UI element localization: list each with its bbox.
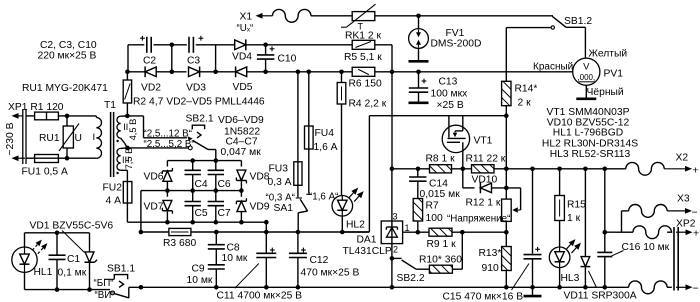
- svg-text:HL1 L-796BGD: HL1 L-796BGD: [553, 127, 623, 138]
- capacitor C9 10mk: [187, 249, 225, 287]
- connector XP2 plug: [622, 219, 700, 291]
- svg-text:470 мк×25 В: 470 мк×25 В: [301, 268, 360, 279]
- svg-text:Желтый: Желтый: [589, 49, 628, 60]
- svg-text:“2,5...12 В“: “2,5...12 В“: [144, 129, 192, 140]
- wire ground bus: [129, 285, 629, 290]
- svg-text:,000,: ,000,: [577, 73, 595, 82]
- capacitor C5: [185, 191, 208, 223]
- svg-text:SB2.1: SB2.1: [186, 114, 214, 125]
- node R4 top: [339, 70, 344, 75]
- resistor R1 120: [26, 112, 67, 120]
- switch SB2.1: [186, 114, 216, 161]
- capacitor C8 10mk: [208, 232, 248, 264]
- resistor R6 150: [349, 67, 574, 89]
- diode VD6: [144, 161, 173, 191]
- svg-text:4 А: 4 А: [106, 196, 122, 207]
- svg-text:100 мкх: 100 мкх: [431, 89, 469, 100]
- resistor R11 22k: [466, 154, 506, 173]
- svg-text:R12 1 к: R12 1 к: [466, 198, 501, 209]
- svg-text:FV1: FV1: [446, 28, 465, 39]
- svg-text:“ВИ“: “ВИ“: [95, 290, 115, 301]
- capacitor C1 0,1mk: [49, 233, 87, 290]
- diode VD2: [141, 66, 187, 93]
- node A: [170, 43, 175, 48]
- svg-text:“Напряжение“: “Напряжение“: [447, 214, 510, 225]
- wire HL1 top: [25, 231, 90, 248]
- svg-text:2: 2: [393, 244, 398, 254]
- led HL1: [12, 240, 53, 279]
- svg-text:VD3: VD3: [186, 83, 206, 94]
- capacitor C16 10mk: [597, 169, 669, 287]
- svg-text:3: 3: [393, 212, 398, 222]
- resistor R9 1k: [427, 228, 509, 250]
- svg-text:Чёрный: Чёрный: [587, 87, 624, 98]
- svg-text:R5 5,1 к: R5 5,1 к: [344, 52, 382, 63]
- svg-text:SB1.1: SB1.1: [107, 264, 135, 275]
- svg-text:910: 910: [482, 263, 499, 274]
- svg-text:SA1: SA1: [274, 203, 294, 214]
- svg-text:C12: C12: [310, 255, 329, 266]
- transistor VT1 mosfet: [442, 116, 492, 169]
- svg-text:C2, C3, C10: C2, C3, C10: [40, 40, 97, 51]
- resistor R3 680: [139, 228, 370, 248]
- capacitor C2: [140, 36, 187, 67]
- capacitor C13 100mk: [409, 72, 468, 111]
- node HL2 bottom: [340, 230, 345, 235]
- svg-text:R11 22 к: R11 22 к: [466, 154, 506, 165]
- svg-text:HL3 RL52-SR113: HL3 RL52-SR113: [550, 149, 631, 160]
- svg-text:FU3: FU3: [269, 164, 289, 175]
- text parts list: [542, 107, 638, 160]
- switch SB1.2: [506, 16, 592, 81]
- svg-text:HL2 RL30N-DR314S: HL2 RL30N-DR314S: [542, 138, 638, 149]
- ground under FV1: [418, 48, 420, 60]
- svg-text:PV1: PV1: [604, 69, 624, 80]
- wire tap 2,5-5,2V: [125, 139, 195, 150]
- svg-text:C1: C1: [67, 254, 80, 265]
- ic DA1 TL431CLP: [343, 169, 410, 257]
- svg-text:C6: C6: [218, 179, 231, 190]
- fuse FU3 0,3A: [268, 72, 303, 188]
- svg-text:R3 680: R3 680: [163, 238, 196, 249]
- ground under PV1: [585, 85, 587, 98]
- vertical C2-VD2: [171, 45, 173, 72]
- svg-text:4,5 В: 4,5 В: [128, 119, 138, 141]
- capacitor C7: [208, 191, 231, 223]
- diode VD4: [232, 39, 266, 62]
- svg-text:VD2: VD2: [141, 83, 161, 94]
- svg-text:C7: C7: [218, 208, 231, 219]
- svg-text:VD6–VD9: VD6–VD9: [218, 115, 264, 126]
- resistor R10* 360: [419, 232, 462, 273]
- wire bridge top rail: [167, 158, 241, 163]
- svg-text:C15 470 мк×16 В: C15 470 мк×16 В: [443, 292, 524, 302]
- svg-text:C16 10 мк: C16 10 мк: [622, 242, 670, 253]
- resistor R7 100: [413, 181, 510, 232]
- capacitor C12 470mk: [289, 232, 360, 287]
- arrester FV1 DMS-200D: [409, 14, 482, 50]
- svg-text:SB1.2: SB1.2: [564, 16, 592, 27]
- svg-text:VD11 SRP300A: VD11 SRP300A: [564, 291, 637, 302]
- svg-text:R2 4,7 VD2–VD5 PMLL4446: R2 4,7 VD2–VD5 PMLL4446: [133, 97, 265, 108]
- svg-text:DA1: DA1: [357, 234, 377, 245]
- wire bottom rail y72: [128, 71, 145, 73]
- terminal minus output: [629, 281, 699, 295]
- svg-text:T1: T1: [104, 100, 116, 111]
- svg-text:1,6 А: 1,6 А: [314, 142, 338, 153]
- resistor R14* 2k: [502, 81, 538, 169]
- svg-text:0,3 А: 0,3 А: [268, 177, 292, 188]
- zener VD1 BZV55C-5V6: [30, 221, 114, 290]
- svg-text:Красный: Красный: [533, 62, 573, 73]
- svg-text:C11 4700 мк×25 В: C11 4700 мк×25 В: [217, 291, 303, 302]
- svg-text:RU1 MYG-20K471: RU1 MYG-20K471: [22, 83, 108, 94]
- resistor R4 2,2k: [337, 72, 386, 196]
- svg-text:R7: R7: [426, 201, 439, 212]
- wire bridge mid rail: [141, 188, 244, 232]
- svg-text:1 к: 1 к: [567, 213, 581, 224]
- svg-text:VD7: VD7: [144, 202, 164, 213]
- wire primary bottom: [67, 157, 96, 159]
- svg-text:R15: R15: [567, 200, 586, 211]
- resistor R2 4,7: [123, 70, 265, 119]
- svg-text:C4: C4: [195, 179, 208, 190]
- node R6-FU3: [296, 70, 301, 75]
- wire squiggle X1: [273, 9, 353, 22]
- svg-text:+: +: [693, 165, 699, 177]
- svg-text:VD9: VD9: [250, 202, 270, 213]
- svg-text:R14*: R14*: [515, 84, 538, 95]
- diode VD3: [186, 66, 235, 93]
- svg-text:−: −: [692, 207, 698, 219]
- svg-text:C9: C9: [192, 264, 205, 275]
- svg-text:VD4: VD4: [232, 51, 252, 62]
- thermistor RK1 2k: [341, 4, 553, 41]
- diode VD5: [233, 66, 353, 93]
- svg-text:SB2.2: SB2.2: [397, 273, 425, 284]
- svg-text:1: 1: [405, 223, 410, 233]
- terminal X1 Ux: [237, 12, 273, 35]
- wire primary top: [67, 116, 96, 118]
- svg-text:FU4: FU4: [315, 128, 335, 139]
- svg-text:C4–C7: C4–C7: [226, 137, 258, 148]
- switch SB2.2 and node pin2: [390, 244, 430, 288]
- svg-text:C5: C5: [195, 208, 208, 219]
- capacitor C3: [187, 36, 234, 67]
- led HL3: [549, 239, 581, 287]
- svg-text:R6 150: R6 150: [349, 79, 382, 90]
- ground under C15: [532, 287, 534, 295]
- svg-text:XP1 R1 120: XP1 R1 120: [8, 102, 64, 113]
- svg-text:10 мк: 10 мк: [187, 275, 213, 286]
- wire bridge bottom rail: [127, 220, 268, 225]
- fuse FU1 0,5 A: [22, 155, 68, 178]
- fuse FU4 1,6A: [305, 72, 338, 195]
- svg-text:“Uₓ“: “Uₓ“: [237, 23, 254, 34]
- wire HL2 loop: [342, 116, 506, 232]
- node C8 top: [214, 230, 219, 235]
- node C10 top: [263, 43, 268, 48]
- node C13 top: [416, 70, 421, 75]
- svg-text:DMS-200D: DMS-200D: [431, 39, 482, 50]
- switch SB1.1: [94, 264, 136, 301]
- svg-text:0,047 мк: 0,047 мк: [221, 147, 262, 158]
- terminal X3: [605, 194, 698, 233]
- connector XP1 plug pins and label: [5, 102, 64, 164]
- capacitor C11 4700mk: [217, 222, 303, 301]
- svg-text:R4 2,2 к: R4 2,2 к: [349, 99, 387, 110]
- diode VD11: [564, 169, 637, 302]
- svg-text:VD8: VD8: [250, 172, 270, 183]
- wire top rail y45: [128, 45, 144, 72]
- wire output bus: [390, 167, 626, 172]
- svg-text:7,5 В: 7,5 В: [124, 148, 134, 170]
- transformer T1: [93, 100, 138, 177]
- svg-text:~230 В: ~230 В: [5, 122, 16, 155]
- resistor R8 1k: [426, 154, 456, 173]
- diode VD10: [463, 169, 521, 194]
- svg-text:R10* 360: R10* 360: [419, 255, 462, 266]
- capacitor C6: [208, 161, 231, 191]
- led HL2: [332, 188, 365, 231]
- svg-text:100: 100: [426, 213, 443, 224]
- svg-text:C13: C13: [439, 77, 458, 88]
- svg-text:HL3: HL3: [561, 273, 580, 284]
- svg-text:C2: C2: [143, 55, 156, 66]
- svg-text:X2: X2: [676, 153, 689, 164]
- svg-text:R9 1 к: R9 1 к: [427, 239, 457, 250]
- resistor R15 1k: [555, 169, 586, 247]
- vertical C3-VD3: [215, 45, 217, 72]
- resistor R13* 910: [479, 232, 512, 287]
- svg-text:R8 1 к: R8 1 к: [426, 154, 456, 165]
- varistor RU1: [22, 83, 108, 161]
- svg-text:“1,6 А“: “1,6 А“: [309, 192, 338, 203]
- svg-text:FU1 0,5 А: FU1 0,5 А: [22, 167, 68, 178]
- pot R12 1k: [466, 169, 521, 232]
- svg-text:2 к: 2 к: [518, 98, 532, 109]
- wire DA1 pin1: [403, 230, 429, 235]
- svg-text:X3: X3: [677, 194, 690, 205]
- svg-text:C8: C8: [227, 242, 240, 253]
- node C11 R3: [264, 230, 269, 235]
- text C2 C3 C10 values: [38, 40, 97, 62]
- svg-text:I: I: [93, 132, 96, 143]
- capacitor C14 0,015mk: [409, 169, 460, 200]
- ground under C13: [418, 92, 420, 102]
- svg-text:10 мк: 10 мк: [222, 253, 248, 264]
- wire HL1 bottom: [25, 272, 111, 292]
- svg-text:VD5: VD5: [233, 82, 253, 93]
- diode VD7: [144, 191, 173, 223]
- text VD6-VD9 values: [218, 115, 264, 158]
- switch SA1: [266, 185, 339, 232]
- svg-text:VD1 BZV55C-5V6: VD1 BZV55C-5V6: [30, 221, 114, 232]
- svg-text:C3: C3: [187, 55, 200, 66]
- svg-text:X1: X1: [240, 12, 253, 23]
- svg-text:“2,5...5,2 В“: “2,5...5,2 В“: [144, 139, 195, 150]
- diode VD8: [236, 161, 269, 191]
- svg-text:R13*: R13*: [479, 248, 502, 259]
- voltmeter PV1: [533, 49, 627, 99]
- svg-text:C10: C10: [278, 53, 297, 64]
- svg-text:0,015 мк: 0,015 мк: [420, 189, 461, 200]
- svg-text:VD10: VD10: [472, 174, 498, 185]
- svg-text:+: +: [693, 228, 699, 240]
- svg-text:220 мк×25 В: 220 мк×25 В: [38, 51, 97, 62]
- wire to R5: [266, 44, 353, 46]
- resistor R5 5,1k: [344, 40, 394, 169]
- svg-text:−: −: [693, 283, 699, 295]
- node C12 top: [296, 230, 301, 235]
- capacitor C10: [257, 45, 297, 72]
- svg-text:“БП“: “БП“: [94, 278, 114, 289]
- svg-text:HL2: HL2: [346, 220, 365, 231]
- node C: [213, 70, 218, 75]
- node B: [170, 70, 175, 75]
- svg-text:VD6: VD6: [144, 172, 164, 183]
- svg-text:×25 В: ×25 В: [437, 100, 464, 111]
- svg-text:TL431CLP: TL431CLP: [343, 246, 392, 257]
- svg-text:VT1: VT1: [474, 136, 493, 147]
- diode VD9: [236, 191, 269, 223]
- node R6-FU4: [307, 70, 312, 75]
- svg-text:FU2: FU2: [103, 183, 123, 194]
- wire tap 2,5-12V: [127, 116, 192, 140]
- svg-text:U: U: [75, 133, 82, 144]
- capacitor C4: [185, 161, 208, 191]
- svg-text:RU1: RU1: [39, 133, 60, 144]
- capacitor C15 470mk: [443, 169, 542, 302]
- node XP2 branch: [603, 230, 608, 235]
- terminal X2: [626, 153, 699, 177]
- fuse FU2 4 A: [103, 170, 132, 222]
- svg-text:V: V: [583, 62, 590, 73]
- node C10 bottom: [263, 70, 268, 75]
- svg-text:0,1 мк: 0,1 мк: [58, 268, 87, 279]
- svg-text:HL1: HL1: [34, 267, 53, 278]
